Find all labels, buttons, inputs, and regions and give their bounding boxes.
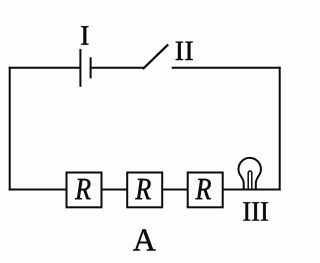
wire top-left segment [10,67,79,69]
wire right vertical [279,68,281,190]
label A [133,229,156,250]
resistor R1 [67,173,102,208]
lamp III (bulb) [239,158,261,190]
switch II open blade [144,45,168,68]
wire top-right segment [173,67,280,69]
wire bottom [10,189,280,191]
resistor R3 [188,173,223,208]
label II [176,42,193,60]
label I [81,26,88,44]
battery I short plate [90,58,92,77]
label III [243,202,268,220]
wire battery to switch [91,67,144,69]
battery I long plate [79,50,81,86]
resistor R2 [127,173,162,208]
wire left vertical [9,68,11,190]
